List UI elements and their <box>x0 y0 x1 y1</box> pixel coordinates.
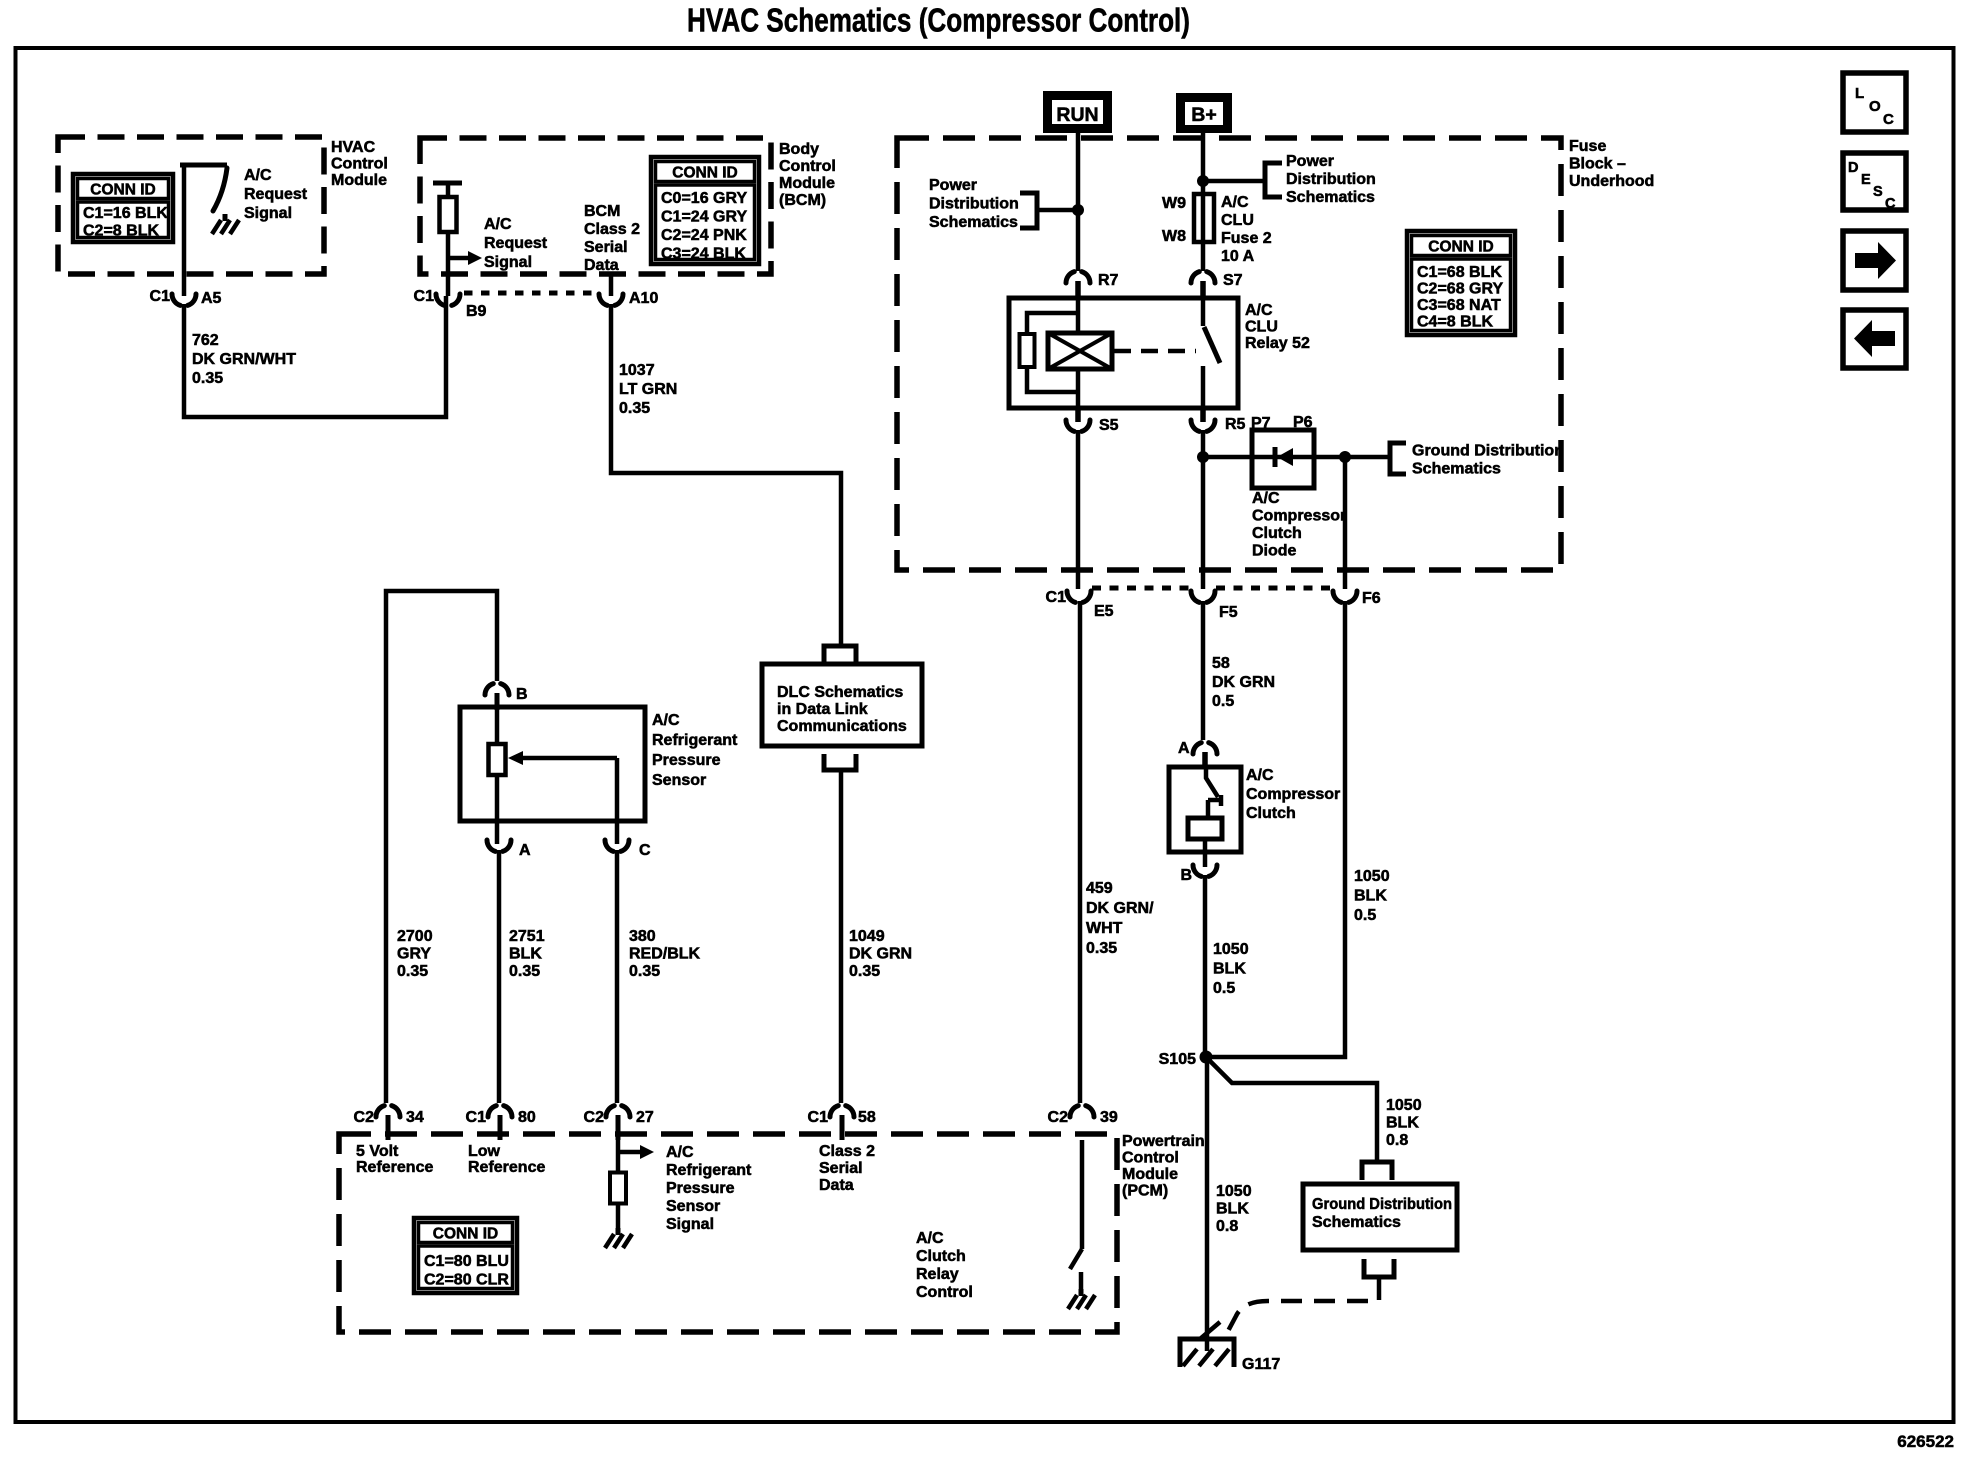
connector C1 80 <box>488 1106 496 1117</box>
svg-text:Schematics: Schematics <box>1412 461 1501 478</box>
connector S5 <box>1066 420 1074 431</box>
PCM sensor signal ground <box>616 1228 621 1235</box>
svg-text:Distribution: Distribution <box>1286 171 1376 188</box>
wire 380 RED/BLK <box>615 850 620 1103</box>
svg-text:A/C: A/C <box>1252 490 1280 507</box>
svg-text:DK GRN: DK GRN <box>1212 674 1275 691</box>
connector B (clutch) <box>1193 865 1201 876</box>
svg-text:Refrigerant: Refrigerant <box>666 1162 752 1179</box>
svg-text:Module: Module <box>331 172 387 189</box>
svg-text:1037: 1037 <box>619 362 655 379</box>
svg-text:Signal: Signal <box>666 1216 714 1233</box>
svg-text:A: A <box>1178 740 1190 757</box>
sensor wiper drop wire <box>615 758 620 844</box>
wire F6 to S105 <box>1206 601 1345 1057</box>
BCM A10 pin stub <box>609 274 614 296</box>
svg-text:C3=24 BLK: C3=24 BLK <box>661 246 746 263</box>
wire to power distribution bracket (right) <box>1203 179 1265 184</box>
svg-text:E: E <box>1861 172 1871 188</box>
svg-text:0.5: 0.5 <box>1354 907 1376 924</box>
junction dot RUN / power distribution <box>1072 204 1084 216</box>
svg-text:C3=68 NAT: C3=68 NAT <box>1417 297 1501 314</box>
svg-text:Pressure: Pressure <box>666 1180 735 1197</box>
svg-text:RED/BLK: RED/BLK <box>629 946 701 963</box>
BCM pull-up wire <box>446 183 451 296</box>
svg-text:WHT: WHT <box>1086 920 1123 937</box>
icon button DESC <box>1843 153 1906 210</box>
svg-text:C2: C2 <box>354 1109 375 1126</box>
svg-text:DK GRN/: DK GRN/ <box>1086 900 1154 917</box>
PCM relay control wire <box>1080 1140 1085 1249</box>
svg-text:Signal: Signal <box>484 254 532 271</box>
svg-text:A/C: A/C <box>916 1230 944 1247</box>
connector C2 34 <box>376 1106 384 1117</box>
relay coil to box bottom wire <box>1076 369 1081 408</box>
wire diode junction to F6 <box>1343 457 1348 589</box>
S7 pin stub <box>1200 281 1206 298</box>
HVAC CONN ID table <box>73 174 173 242</box>
C1-58 pin stub <box>840 1115 845 1140</box>
connector R7 <box>1066 272 1074 283</box>
svg-text:C2=8 BLK: C2=8 BLK <box>83 223 159 240</box>
svg-text:C1=16 BLK: C1=16 BLK <box>83 205 168 222</box>
R5 stub <box>1200 408 1206 422</box>
svg-text:Module: Module <box>779 175 835 192</box>
svg-text:E5: E5 <box>1094 603 1114 620</box>
svg-text:CLU: CLU <box>1221 212 1254 229</box>
inline connector dash line B9-A10 <box>464 291 596 296</box>
BCM pull-up resistor <box>440 197 457 232</box>
svg-text:Ground Distribution: Ground Distribution <box>1312 1196 1452 1213</box>
sensor wiper arrow <box>521 756 617 761</box>
svg-text:HVAC Schematics (Compressor Co: HVAC Schematics (Compressor Control) <box>687 2 1190 39</box>
wire R5 to F5 <box>1201 430 1206 589</box>
svg-text:S5: S5 <box>1099 417 1119 434</box>
svg-text:GRY: GRY <box>397 946 431 963</box>
svg-text:Ground Distribution: Ground Distribution <box>1412 443 1564 460</box>
svg-text:0.8: 0.8 <box>1386 1132 1408 1149</box>
svg-text:0.8: 0.8 <box>1216 1218 1238 1235</box>
svg-text:Clutch: Clutch <box>1252 525 1302 542</box>
svg-text:C2: C2 <box>1048 1109 1069 1126</box>
svg-text:P6: P6 <box>1293 414 1313 431</box>
svg-text:C1=80 BLU: C1=80 BLU <box>424 1253 509 1270</box>
connector S7 <box>1191 272 1199 283</box>
svg-text:Fuse: Fuse <box>1569 138 1606 155</box>
junction dot diode/F6 <box>1339 451 1351 463</box>
svg-text:2700: 2700 <box>397 928 433 945</box>
svg-text:C2=24 PNK: C2=24 PNK <box>661 227 747 244</box>
svg-text:1050: 1050 <box>1354 868 1390 885</box>
PCM resistor to ground wire <box>616 1203 621 1230</box>
svg-text:10 A: 10 A <box>1221 248 1255 265</box>
ground distribution bracket (diode) <box>1390 443 1406 474</box>
svg-text:1050: 1050 <box>1216 1183 1252 1200</box>
A/C CLU Relay 52 box <box>1009 298 1238 408</box>
DLC bottom bracket <box>824 754 856 770</box>
svg-text:R5: R5 <box>1225 416 1246 433</box>
connector C1 E5 <box>1067 591 1075 602</box>
svg-text:S: S <box>1873 184 1883 200</box>
svg-text:(BCM): (BCM) <box>779 192 826 209</box>
svg-text:C: C <box>1883 111 1894 128</box>
PCM sensor signal wire <box>616 1140 621 1173</box>
svg-text:Block –: Block – <box>1569 156 1626 173</box>
svg-text:C1=24 GRY: C1=24 GRY <box>661 209 747 226</box>
svg-text:CLU: CLU <box>1245 319 1278 336</box>
svg-text:BLK: BLK <box>1354 888 1387 905</box>
svg-text:Data: Data <box>819 1177 854 1194</box>
relay switch feed <box>1201 298 1206 326</box>
svg-text:B+: B+ <box>1191 104 1216 126</box>
relay actuation dashed link <box>1114 349 1196 354</box>
svg-text:C2=80 CLR: C2=80 CLR <box>424 1272 509 1289</box>
svg-text:2751: 2751 <box>509 928 545 945</box>
Ground Distribution Schematics box <box>1303 1184 1457 1250</box>
svg-text:O: O <box>1869 98 1881 115</box>
svg-text:A/C: A/C <box>666 1144 694 1161</box>
svg-text:Compressor: Compressor <box>1246 786 1340 803</box>
svg-text:27: 27 <box>636 1109 654 1126</box>
svg-text:F5: F5 <box>1219 604 1238 621</box>
power distribution bracket (left) <box>1020 193 1037 228</box>
svg-text:Fuse 2: Fuse 2 <box>1221 230 1272 247</box>
svg-text:Underhood: Underhood <box>1569 173 1654 190</box>
wire to power distribution bracket (left) <box>1037 208 1078 213</box>
connector B (pressure sensor) <box>485 684 493 695</box>
wire clutch B to S105 <box>1203 875 1208 1057</box>
svg-text:380: 380 <box>629 928 656 945</box>
svg-text:Class 2: Class 2 <box>584 221 640 238</box>
svg-text:0.35: 0.35 <box>849 963 880 980</box>
Body Control Module box <box>420 138 771 274</box>
svg-text:626522: 626522 <box>1897 1432 1954 1451</box>
wire 2751 BLK <box>497 850 502 1103</box>
svg-text:D: D <box>1848 160 1858 176</box>
C2-34 pin stub <box>386 1115 391 1140</box>
svg-text:0.35: 0.35 <box>192 370 223 387</box>
PCM relay control ground <box>1079 1289 1084 1296</box>
svg-text:Relay: Relay <box>916 1266 959 1283</box>
svg-text:Sensor: Sensor <box>652 772 706 789</box>
svg-text:Data: Data <box>584 257 619 274</box>
svg-text:A10: A10 <box>629 290 658 307</box>
DLC top bracket <box>824 646 856 663</box>
C1-80 pin stub <box>498 1115 503 1140</box>
svg-text:C4=8 BLK: C4=8 BLK <box>1417 314 1493 331</box>
wire HVAC switch to A5 <box>182 165 187 296</box>
sensor potentiometer wire <box>495 707 500 844</box>
DLC Schematics box <box>762 664 922 746</box>
wire sensor B to C2-34 <box>386 591 497 1103</box>
HVAC Control Module box <box>58 137 324 274</box>
svg-text:Sensor: Sensor <box>666 1198 720 1215</box>
svg-text:Serial: Serial <box>584 239 628 256</box>
svg-text:C: C <box>639 842 651 859</box>
svg-text:BCM: BCM <box>584 203 620 220</box>
splice S105 <box>1200 1051 1213 1064</box>
svg-text:C1: C1 <box>1046 589 1067 606</box>
svg-text:C1=68 BLK: C1=68 BLK <box>1417 264 1502 281</box>
svg-text:DLC Schematics: DLC Schematics <box>777 684 903 701</box>
svg-text:C1: C1 <box>150 288 171 305</box>
connector C2 39 <box>1070 1106 1078 1117</box>
svg-text:CONN ID: CONN ID <box>433 1226 498 1243</box>
icon button LOC <box>1843 73 1906 132</box>
svg-text:Reference: Reference <box>356 1159 433 1176</box>
wire 762 DK GRN/WHT <box>184 296 446 417</box>
svg-text:BLK: BLK <box>1216 1201 1249 1218</box>
svg-text:DK GRN: DK GRN <box>849 946 912 963</box>
svg-text:A/C: A/C <box>484 216 512 233</box>
svg-text:1050: 1050 <box>1213 941 1249 958</box>
PCM relay control switch blade <box>1070 1249 1082 1269</box>
svg-text:A/C: A/C <box>1246 767 1274 784</box>
PCM relay control lower stub <box>1079 1272 1084 1291</box>
clutch coil to B wire <box>1203 839 1208 867</box>
PCM signal pull resistor <box>610 1173 626 1204</box>
svg-text:Power: Power <box>1286 153 1334 170</box>
relay coil box <box>1048 333 1112 369</box>
wire 1049 DK GRN <box>839 770 844 1103</box>
svg-text:0.35: 0.35 <box>629 963 660 980</box>
connector F6 <box>1333 591 1341 602</box>
sensor potentiometer resistor <box>489 744 506 775</box>
connector R5 <box>1191 420 1199 431</box>
svg-text:Distribution: Distribution <box>929 196 1019 213</box>
connector C1 58 <box>830 1106 838 1117</box>
relay switch blade <box>1204 327 1220 363</box>
svg-text:P7: P7 <box>1251 415 1271 432</box>
svg-text:A/C: A/C <box>244 167 272 184</box>
C2-27 pin stub <box>616 1115 621 1140</box>
svg-text:0.35: 0.35 <box>1086 940 1117 957</box>
svg-text:C2: C2 <box>584 1109 605 1126</box>
B+ feed box <box>1176 93 1232 133</box>
svg-text:C1: C1 <box>808 1109 829 1126</box>
wire S105 to G117 <box>1205 1057 1210 1351</box>
BCM A/C request sense arrow <box>448 256 468 261</box>
connector C2 27 <box>606 1106 614 1117</box>
svg-text:34: 34 <box>406 1109 424 1126</box>
svg-text:5 Volt: 5 Volt <box>356 1143 399 1160</box>
svg-text:in Data Link: in Data Link <box>777 701 868 718</box>
svg-text:C1: C1 <box>414 288 435 305</box>
svg-text:G117: G117 <box>1242 1356 1280 1373</box>
junction dot B+ / power distribution <box>1197 175 1209 187</box>
svg-text:Communications: Communications <box>777 718 907 735</box>
svg-text:BLK: BLK <box>1386 1115 1419 1132</box>
ground distribution bracket (bottom) <box>1364 1259 1394 1277</box>
svg-text:F6: F6 <box>1362 590 1381 607</box>
svg-text:A/C: A/C <box>652 712 680 729</box>
ground distribution bracket (top) <box>1362 1162 1392 1180</box>
svg-text:0.5: 0.5 <box>1213 980 1235 997</box>
svg-text:CONN ID: CONN ID <box>672 165 737 182</box>
svg-text:LT GRN: LT GRN <box>619 381 677 398</box>
svg-text:Control: Control <box>779 158 836 175</box>
svg-text:C: C <box>1885 196 1896 212</box>
svg-text:Module: Module <box>1122 1166 1178 1183</box>
A/C CLU Fuse 2 body <box>1194 194 1214 242</box>
wire S105 to ground distribution <box>1206 1057 1377 1160</box>
svg-text:B9: B9 <box>466 303 487 320</box>
icon button prev-page arrow <box>1843 310 1906 368</box>
svg-text:BLK: BLK <box>1213 961 1246 978</box>
Powertrain Control Module box <box>339 1134 1117 1332</box>
svg-text:A/C: A/C <box>1245 302 1273 319</box>
svg-text:S105: S105 <box>1159 1051 1196 1068</box>
wire B+ to S7 <box>1201 133 1206 271</box>
svg-text:Relay 52: Relay 52 <box>1245 335 1310 352</box>
svg-text:CONN ID: CONN ID <box>1428 239 1493 256</box>
svg-text:Power: Power <box>929 177 977 194</box>
A/C request switch ground <box>223 214 228 221</box>
connector A10 <box>599 294 607 305</box>
connector C1 A5 <box>172 294 180 305</box>
svg-text:R7: R7 <box>1098 272 1119 289</box>
dashed wire to G117 <box>1228 1279 1379 1331</box>
svg-text:0.35: 0.35 <box>509 963 540 980</box>
clutch internal contact <box>1206 767 1218 797</box>
svg-text:Control: Control <box>1122 1150 1179 1167</box>
svg-text:A5: A5 <box>201 290 222 307</box>
R7 pin stub <box>1075 281 1081 298</box>
svg-text:Signal: Signal <box>244 205 292 222</box>
svg-text:Class 2: Class 2 <box>819 1143 875 1160</box>
svg-text:CONN ID: CONN ID <box>90 182 155 199</box>
svg-text:A/C: A/C <box>1221 194 1249 211</box>
sensor B stub <box>495 693 500 710</box>
A/C request switch blade <box>213 168 227 211</box>
svg-text:Clutch: Clutch <box>916 1248 966 1265</box>
PCM sensor signal arrow <box>618 1150 640 1155</box>
svg-text:L: L <box>1855 85 1864 102</box>
svg-text:C0=16 GRY: C0=16 GRY <box>661 190 747 207</box>
connector A (clutch) <box>1193 743 1201 754</box>
svg-text:Request: Request <box>484 235 548 252</box>
wire 1037 LT GRN <box>611 304 841 648</box>
A/C Refrigerant Pressure Sensor box <box>460 707 645 821</box>
BCM pull-up supply tick <box>433 181 462 186</box>
svg-text:W9: W9 <box>1162 195 1186 212</box>
connector F5 <box>1191 591 1199 602</box>
S5 stub <box>1075 408 1081 422</box>
svg-text:459: 459 <box>1086 880 1113 897</box>
svg-text:Pressure: Pressure <box>652 752 721 769</box>
svg-text:Refrigerant: Refrigerant <box>652 732 738 749</box>
connector A (sensor) <box>487 840 495 851</box>
RUN feed box <box>1043 91 1112 133</box>
svg-text:C1: C1 <box>466 1109 487 1126</box>
svg-text:Serial: Serial <box>819 1160 863 1177</box>
svg-text:B: B <box>1180 867 1192 884</box>
wire through clutch diode <box>1203 455 1390 460</box>
svg-text:S7: S7 <box>1223 272 1243 289</box>
svg-text:Request: Request <box>244 186 308 203</box>
svg-text:0.35: 0.35 <box>619 400 650 417</box>
svg-text:RUN: RUN <box>1056 104 1098 126</box>
A/C Compressor Clutch box <box>1169 767 1241 852</box>
svg-text:1049: 1049 <box>849 928 885 945</box>
svg-text:HVAC: HVAC <box>331 139 376 156</box>
connector C (sensor) <box>605 840 613 851</box>
A/C Compressor Clutch Diode box <box>1252 430 1314 488</box>
svg-text:A: A <box>519 842 531 859</box>
BCM CONN ID table <box>651 157 759 264</box>
svg-text:Control: Control <box>916 1284 973 1301</box>
svg-text:DK GRN/WHT: DK GRN/WHT <box>192 351 296 368</box>
wire RUN to R7 <box>1076 133 1081 271</box>
svg-text:58: 58 <box>1212 655 1230 672</box>
power distribution bracket (right) <box>1265 163 1282 197</box>
svg-text:W8: W8 <box>1162 228 1186 245</box>
svg-text:1050: 1050 <box>1386 1097 1422 1114</box>
A/C request switch feed tick <box>180 163 227 168</box>
svg-text:0.5: 0.5 <box>1212 693 1234 710</box>
svg-text:BLK: BLK <box>509 946 542 963</box>
svg-text:80: 80 <box>518 1109 536 1126</box>
ground G117 symbol <box>1180 1339 1234 1367</box>
svg-text:0.35: 0.35 <box>397 963 428 980</box>
svg-text:762: 762 <box>192 332 219 349</box>
connector C1 B9 <box>436 294 444 305</box>
svg-text:Clutch: Clutch <box>1246 805 1296 822</box>
svg-text:Body: Body <box>779 141 819 158</box>
PCM CONN ID table <box>414 1218 517 1293</box>
svg-text:Schematics: Schematics <box>1312 1214 1401 1231</box>
svg-text:Control: Control <box>331 156 388 173</box>
svg-text:Reference: Reference <box>468 1159 545 1176</box>
clutch A stub <box>1202 752 1208 768</box>
relay resistor loop <box>1027 313 1078 334</box>
svg-text:(PCM): (PCM) <box>1122 1183 1168 1200</box>
G117 ground slash <box>1200 1322 1220 1339</box>
svg-text:58: 58 <box>858 1109 876 1126</box>
clutch coil element <box>1188 818 1222 839</box>
relay coil feed wire <box>1076 298 1081 333</box>
svg-text:Compressor: Compressor <box>1252 508 1346 525</box>
svg-text:Low: Low <box>468 1143 501 1160</box>
icon button next-page arrow <box>1843 231 1906 290</box>
relay switch lower contact <box>1201 366 1206 408</box>
wire E5 to C2-39 <box>1078 601 1083 1103</box>
wire F5 to clutch A <box>1201 601 1206 740</box>
inline connector dash line E5-F5-F6 <box>1092 586 1190 591</box>
Fuse Block CONN ID table <box>1407 231 1515 335</box>
svg-text:Schematics: Schematics <box>929 214 1018 231</box>
svg-text:Schematics: Schematics <box>1286 189 1375 206</box>
wire S5 to E5 <box>1076 430 1081 589</box>
svg-text:B: B <box>516 686 528 703</box>
Fuse Block - Underhood box <box>897 138 1561 570</box>
svg-text:39: 39 <box>1100 1109 1118 1126</box>
svg-text:C2=68 GRY: C2=68 GRY <box>1417 281 1503 298</box>
relay parallel resistor <box>1020 334 1035 367</box>
svg-text:Powertrain: Powertrain <box>1122 1133 1205 1150</box>
diode symbol <box>1273 447 1278 467</box>
junction dot R5/diode <box>1197 451 1209 463</box>
svg-text:Diode: Diode <box>1252 543 1297 560</box>
